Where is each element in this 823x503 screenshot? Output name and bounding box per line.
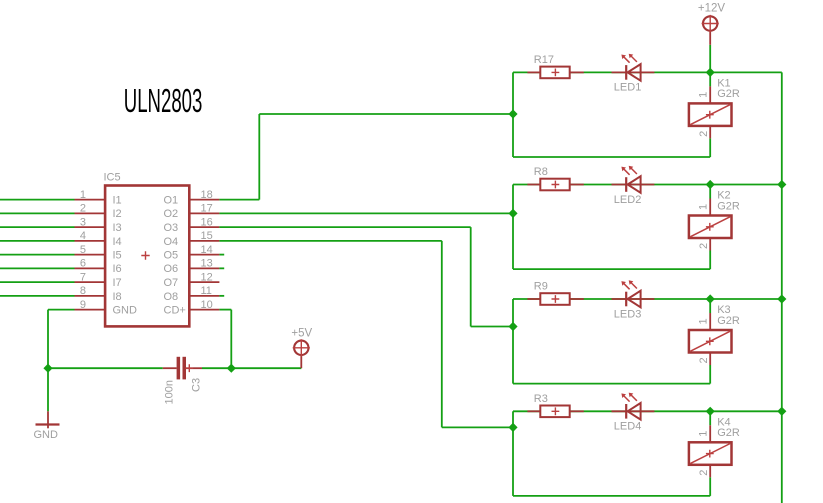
node junction coil K4 bbox=[706, 407, 715, 416]
wire channel K1 loop bbox=[513, 72, 782, 157]
node junction cap rail pin10 bbox=[227, 364, 236, 373]
svg-text:15: 15 bbox=[201, 230, 213, 242]
svg-text:6: 6 bbox=[80, 258, 86, 270]
svg-text:2: 2 bbox=[698, 243, 710, 249]
svg-text:11: 11 bbox=[201, 285, 212, 297]
wire right +12V rail bbox=[781, 72, 783, 503]
svg-text:I1: I1 bbox=[113, 195, 122, 207]
svg-text:G2R: G2R bbox=[717, 200, 740, 212]
node junction right rail K2 bbox=[777, 180, 786, 189]
svg-text:1: 1 bbox=[698, 204, 710, 210]
resistor R8 bbox=[527, 166, 583, 190]
svg-text:13: 13 bbox=[201, 258, 213, 270]
LED LED4 bbox=[612, 393, 655, 433]
svg-text:2: 2 bbox=[80, 203, 86, 215]
svg-text:14: 14 bbox=[201, 244, 213, 256]
svg-text:O7: O7 bbox=[164, 277, 179, 289]
svg-text:3: 3 bbox=[80, 216, 86, 228]
svg-text:LED2: LED2 bbox=[614, 194, 642, 206]
svg-text:R17: R17 bbox=[534, 54, 554, 66]
svg-text:R3: R3 bbox=[534, 393, 548, 405]
node IC5 label bbox=[104, 172, 121, 184]
wire input net pins 1-8 bbox=[0, 200, 75, 296]
svg-text:C3: C3 bbox=[190, 378, 202, 392]
wire net CD+ pin10 to +5V rail bbox=[219, 310, 231, 369]
svg-text:O2: O2 bbox=[164, 208, 179, 220]
node junction left K1 bbox=[508, 109, 517, 118]
wire channel K2 loop bbox=[513, 185, 782, 270]
svg-text:GND: GND bbox=[34, 429, 59, 441]
svg-text:R8: R8 bbox=[534, 166, 548, 178]
svg-text:18: 18 bbox=[201, 189, 213, 201]
wire net O4 pin15 to channel 4 bbox=[219, 241, 513, 428]
svg-text:1: 1 bbox=[698, 431, 710, 437]
svg-text:O5: O5 bbox=[164, 250, 179, 262]
relay K4 G2R coil bbox=[689, 416, 740, 477]
svg-text:10: 10 bbox=[201, 299, 213, 311]
svg-text:LED4: LED4 bbox=[614, 421, 642, 433]
svg-text:O4: O4 bbox=[164, 236, 179, 248]
svg-text:16: 16 bbox=[201, 216, 213, 228]
wire channel K3 loop bbox=[513, 299, 782, 384]
wire net O1 pin18 to channel 1 bbox=[219, 114, 513, 200]
relay K3 G2R coil bbox=[689, 304, 740, 365]
svg-text:GND: GND bbox=[113, 305, 138, 317]
resistor R3 bbox=[527, 393, 583, 417]
svg-text:O3: O3 bbox=[164, 222, 179, 234]
svg-text:1: 1 bbox=[698, 318, 710, 324]
node junction right rail K4 bbox=[777, 407, 786, 416]
svg-text:R9: R9 bbox=[534, 281, 548, 293]
svg-text:G2R: G2R bbox=[717, 427, 740, 439]
svg-text:+12V: +12V bbox=[698, 2, 726, 14]
supply +5V bbox=[291, 328, 312, 369]
svg-text:I6: I6 bbox=[113, 263, 122, 275]
svg-text:CD+: CD+ bbox=[164, 305, 186, 317]
resistor R17 bbox=[527, 54, 583, 78]
node junction coil K3 bbox=[706, 294, 715, 303]
svg-text:2: 2 bbox=[698, 131, 710, 137]
wire channel K4 loop bbox=[513, 411, 782, 496]
svg-text:I5: I5 bbox=[113, 250, 122, 262]
svg-text:5: 5 bbox=[80, 244, 86, 256]
svg-text:G2R: G2R bbox=[717, 315, 740, 327]
ground bbox=[34, 368, 60, 441]
svg-text:+5V: +5V bbox=[291, 328, 312, 340]
node junction left K2 bbox=[508, 209, 517, 218]
supply +12V bbox=[698, 2, 726, 72]
svg-text:IC5: IC5 bbox=[104, 172, 121, 184]
svg-text:LED3: LED3 bbox=[614, 308, 642, 320]
svg-text:8: 8 bbox=[80, 285, 86, 297]
svg-text:I2: I2 bbox=[113, 208, 122, 220]
svg-text:G2R: G2R bbox=[717, 88, 740, 100]
LED LED3 bbox=[612, 280, 655, 320]
svg-text:O8: O8 bbox=[164, 291, 179, 303]
wire GND/+5V bottom rail bbox=[48, 367, 301, 369]
LED LED1 bbox=[612, 54, 655, 94]
svg-text:ULN2803: ULN2803 bbox=[124, 82, 203, 119]
node junction right rail K3 bbox=[777, 294, 786, 303]
svg-text:O1: O1 bbox=[164, 195, 179, 207]
svg-text:I7: I7 bbox=[113, 277, 122, 289]
wire green pin tips 14 13 11 bbox=[219, 255, 224, 296]
pin numbers and names IC5 bbox=[80, 189, 213, 317]
wire GND net from pin 9 bbox=[48, 310, 75, 369]
svg-text:O6: O6 bbox=[164, 263, 179, 275]
wire net O3 pin16 to channel 3 bbox=[219, 227, 513, 326]
svg-text:2: 2 bbox=[698, 470, 710, 476]
relay K1 G2R coil bbox=[689, 77, 740, 138]
node junction coil K1 bbox=[706, 68, 715, 77]
svg-text:17: 17 bbox=[201, 203, 213, 215]
svg-text:2: 2 bbox=[698, 357, 710, 363]
node junction GND rail bbox=[43, 364, 52, 373]
svg-text:I3: I3 bbox=[113, 222, 122, 234]
op-amp U1 IC5 ULN2803 body bbox=[75, 186, 220, 327]
node junction coil K2 bbox=[706, 180, 715, 189]
capacitor C3 100n bbox=[163, 357, 203, 405]
node ULN2803 title text bbox=[124, 82, 203, 119]
svg-text:I8: I8 bbox=[113, 291, 122, 303]
svg-text:1: 1 bbox=[80, 189, 86, 201]
svg-text:100n: 100n bbox=[163, 380, 175, 404]
relay K2 G2R coil bbox=[689, 190, 740, 251]
svg-text:4: 4 bbox=[80, 230, 86, 242]
svg-text:LED1: LED1 bbox=[614, 82, 642, 94]
svg-text:I4: I4 bbox=[113, 236, 122, 248]
wire net O2 pin17 to channel 2 bbox=[219, 212, 513, 214]
node junction left K4 bbox=[508, 423, 517, 432]
svg-text:1: 1 bbox=[698, 92, 710, 98]
svg-text:7: 7 bbox=[80, 271, 86, 283]
resistor R9 bbox=[527, 281, 583, 305]
LED LED2 bbox=[612, 166, 655, 206]
node junction left K3 bbox=[508, 322, 517, 331]
svg-text:9: 9 bbox=[80, 299, 86, 311]
svg-text:12: 12 bbox=[201, 271, 213, 283]
